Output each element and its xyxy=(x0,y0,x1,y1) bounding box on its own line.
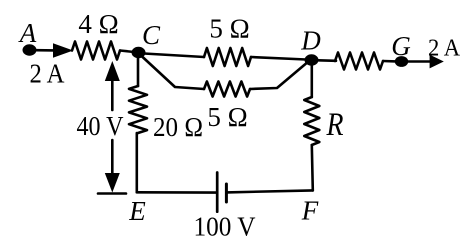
wire D to right resistor xyxy=(318,59,336,62)
svg-text:40 V: 40 V xyxy=(77,111,124,141)
wire G to output arrow xyxy=(408,60,432,63)
current arrow into A (2 A) xyxy=(53,43,73,58)
wire C to top 5-ohm resistor xyxy=(144,54,204,58)
40 V dimension arrow shaft (lower) xyxy=(111,140,114,175)
resistor (unlabeled, D to G) xyxy=(335,53,383,70)
resistor 20 ohm xyxy=(129,86,147,133)
svg-text:G: G xyxy=(391,31,411,61)
wire top 5-ohm to node D xyxy=(251,57,306,60)
wire 20-ohm down to node E xyxy=(136,133,139,192)
wire lower 5-ohm up-slant to node D xyxy=(250,61,309,89)
node D xyxy=(305,54,319,65)
current arrow out (2 A right) xyxy=(430,55,444,69)
bottom wire battery to F xyxy=(226,190,312,192)
bottom wire E to battery xyxy=(137,191,216,194)
resistor 5 ohm (lower branch) xyxy=(204,82,250,97)
battery short plate (-) xyxy=(225,184,228,202)
svg-text:2 A: 2 A xyxy=(428,36,461,62)
wire C down to 20-ohm resistor xyxy=(137,57,140,86)
wire C down-slant to lower 5-ohm branch xyxy=(142,56,205,89)
svg-text:4 Ω: 4 Ω xyxy=(78,9,118,39)
node A terminal dot xyxy=(23,44,37,55)
svg-text:F: F xyxy=(301,196,319,226)
baseline tick under 40 V arrow xyxy=(98,192,126,195)
battery long plate (+) xyxy=(216,173,219,212)
node G xyxy=(395,56,408,67)
40 V dimension arrow shaft (upper) xyxy=(111,79,114,110)
40 V dimension arrow top head xyxy=(105,61,120,81)
svg-text:C: C xyxy=(142,20,161,50)
resistor 5 ohm (top branch) xyxy=(204,48,251,66)
resistor 4 ohm xyxy=(72,42,120,60)
resistor R xyxy=(304,97,319,145)
svg-text:5 Ω: 5 Ω xyxy=(209,14,249,44)
svg-text:A: A xyxy=(18,18,37,48)
svg-text:E: E xyxy=(128,196,146,226)
40 V dimension arrow bottom head xyxy=(105,173,120,193)
wire R down to F xyxy=(312,145,313,190)
svg-text:100 V: 100 V xyxy=(194,212,256,242)
wire resistor to node C xyxy=(120,51,134,53)
svg-text:D: D xyxy=(300,26,321,56)
svg-text:R: R xyxy=(326,107,344,143)
wire resistor to node G xyxy=(383,60,396,63)
wire A to current arrow xyxy=(36,49,55,52)
svg-text:20 Ω: 20 Ω xyxy=(153,112,203,142)
svg-text:5 Ω: 5 Ω xyxy=(207,102,247,132)
wire D down to resistor R xyxy=(310,64,313,97)
svg-text:2 A: 2 A xyxy=(30,59,65,89)
node C xyxy=(132,47,146,58)
